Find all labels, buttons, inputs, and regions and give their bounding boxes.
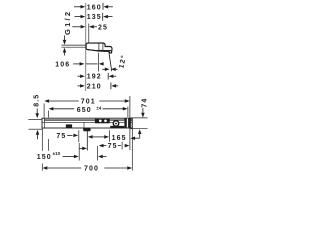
dim 650 — [48, 105, 128, 117]
svg-text:135: 135 — [87, 14, 102, 21]
dim 74 — [130, 98, 148, 139]
svg-text:75: 75 — [108, 143, 118, 150]
dim 160 — [74, 3, 113, 12]
svg-text:701: 701 — [81, 99, 96, 106]
G1/2 extension line lower — [62, 46, 86, 48]
dim 701 — [44, 96, 130, 150]
svg-text:74: 74 — [141, 98, 148, 108]
wall line (side view) — [85, 3, 87, 91]
svg-text:192: 192 — [87, 74, 102, 81]
svg-text:75: 75 — [56, 133, 66, 140]
dim 106 — [55, 61, 103, 68]
shelf bar (front view) — [42, 118, 132, 128]
dim 700 — [42, 129, 132, 173]
G1/2 upper arrow — [63, 35, 67, 44]
svg-text:±10: ±10 — [53, 151, 61, 156]
spout outlet underside — [98, 49, 112, 51]
svg-text:8.5: 8.5 — [34, 94, 41, 107]
spout body (side view) — [86, 43, 112, 53]
dim 135 — [75, 13, 113, 21]
svg-text:±4: ±4 — [96, 105, 101, 110]
svg-text:210: 210 — [87, 83, 102, 90]
svg-text:650: 650 — [77, 107, 92, 114]
svg-text:25: 25 — [98, 24, 108, 31]
svg-text:150: 150 — [37, 154, 52, 161]
dim 8.5 — [28, 94, 42, 139]
12 degree leaning line — [109, 52, 112, 71]
dim 210 — [78, 83, 119, 91]
svg-text:G1/2: G1/2 — [63, 10, 72, 35]
hose outlet extension line — [86, 130, 88, 151]
dim 150 plus-minus 10 — [37, 129, 107, 162]
dim 192 — [78, 73, 117, 81]
svg-text:160: 160 — [87, 4, 102, 11]
outlet extension line — [97, 53, 99, 72]
spout underside slant — [87, 50, 104, 52]
G1/2 extension line upper — [62, 44, 86, 46]
svg-text:165: 165 — [112, 135, 127, 142]
G1/2 lower arrow — [63, 48, 67, 56]
hose dim arrow — [79, 147, 87, 151]
spout joint line B — [102, 43, 104, 51]
svg-text:106: 106 — [55, 61, 70, 68]
svg-text:700: 700 — [84, 165, 99, 172]
spout joint line A — [98, 43, 100, 51]
dim 165 — [88, 130, 139, 142]
dim 75 to hose — [56, 130, 78, 142]
dim 25 — [72, 24, 108, 43]
angle dim arrows — [102, 68, 117, 72]
hose outlet nub — [83, 128, 90, 131]
dim 75 right — [99, 142, 130, 150]
